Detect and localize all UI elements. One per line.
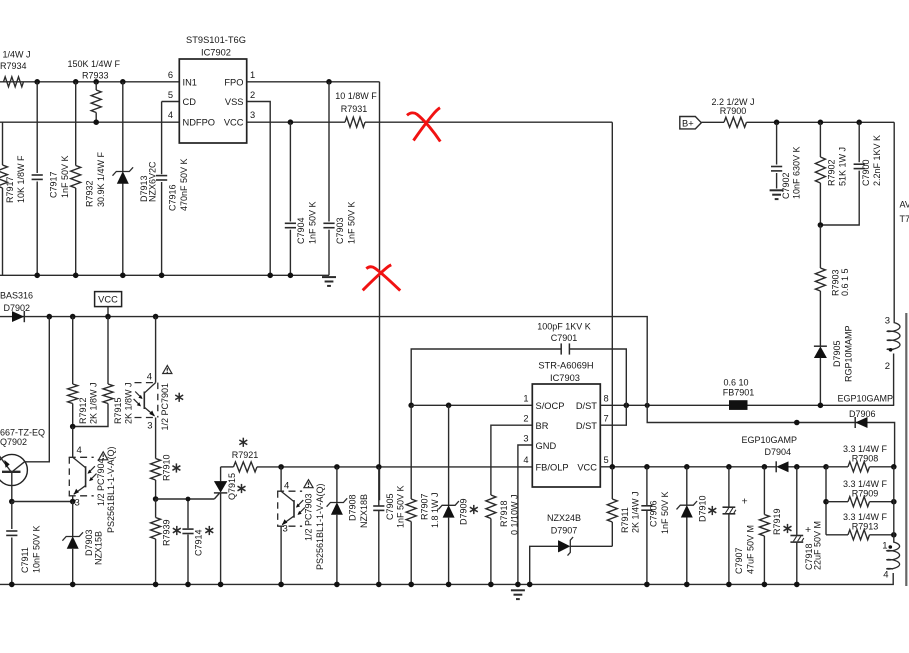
svg-text:5: 5 (168, 90, 173, 100)
svg-text:STR-A6069H: STR-A6069H (538, 361, 593, 371)
node pin6-R7932 (73, 79, 79, 85)
svg-text:D7903: D7903 (84, 529, 94, 556)
capacitor C7903 (328, 82, 330, 222)
svg-text:R7910: R7910 (162, 454, 172, 481)
node VCC-C7906 (644, 464, 650, 470)
svg-text:3: 3 (885, 316, 890, 327)
node B+ C7902 (774, 120, 780, 126)
asterisk Q7915 (241, 484, 243, 493)
wire S/OCP pin1 left (411, 404, 532, 406)
diode D7902 (12, 312, 23, 322)
svg-text:22uF 50V M: 22uF 50V M (813, 521, 823, 570)
node R7910 R7939 junction (153, 496, 159, 502)
svg-text:0.6 1 5: 0.6 1 5 (840, 268, 850, 296)
bottom rail dots (9, 582, 15, 588)
svg-text:D7902: D7902 (4, 303, 31, 313)
red X mark on FPO drop (363, 265, 401, 291)
zener diode D7910 (686, 467, 688, 505)
svg-text:47uF 50V M: 47uF 50V M (746, 525, 756, 574)
svg-text:FPO: FPO (224, 77, 243, 87)
electrolytic C7918 (796, 467, 798, 536)
svg-text:R7915: R7915 (113, 397, 123, 424)
svg-text:EGP10GAMP: EGP10GAMP (741, 435, 797, 445)
capacitor C7914 (187, 499, 189, 528)
svg-text:C7902: C7902 (781, 172, 791, 199)
resistor R7934 (4, 77, 24, 87)
svg-text:C7903: C7903 (335, 217, 345, 244)
svg-text:2: 2 (885, 361, 890, 372)
node drain-C7901 (624, 403, 630, 409)
svg-text:1: 1 (250, 70, 255, 80)
svg-text:R7932: R7932 (85, 180, 95, 207)
svg-text:R7934: R7934 (0, 61, 27, 71)
svg-text:3: 3 (75, 498, 80, 509)
node VCC-D7910 (684, 464, 690, 470)
red X mark on VCC wire (407, 108, 440, 142)
asterisk R7910 (175, 463, 177, 472)
svg-text:R7918: R7918 (499, 500, 509, 527)
wire VCC pin3 net (247, 121, 345, 123)
ground symbol main (511, 589, 525, 591)
IC U7903 box (532, 384, 600, 487)
svg-text:Q7902: Q7902 (0, 437, 27, 447)
node VCC-C7904 (288, 119, 294, 125)
warning triangle PC7901 (163, 366, 172, 374)
svg-text:D7908: D7908 (348, 494, 358, 521)
svg-text:CD: CD (183, 97, 197, 107)
svg-text:R7900: R7900 (720, 106, 747, 116)
wire VCC rail (0, 317, 895, 467)
svg-text:10nF 630V K: 10nF 630V K (792, 146, 802, 199)
node S/OCP C7901 (408, 403, 414, 409)
node pin6-R7933 (93, 79, 99, 85)
node FB-C7905 (376, 464, 382, 470)
svg-text:T7: T7 (900, 214, 909, 224)
capacitor C7906 (646, 467, 648, 505)
wire drain net pin8 (600, 404, 729, 406)
svg-text:1: 1 (882, 541, 887, 552)
svg-text:VCC: VCC (577, 463, 597, 473)
svg-text:R7913: R7913 (852, 522, 879, 532)
node VCC-R7908 (823, 464, 829, 470)
asterisk R7921 (242, 438, 244, 447)
svg-text:3: 3 (147, 421, 152, 432)
asterisk R7939 (176, 526, 178, 535)
diode D7904 (775, 461, 777, 472)
svg-text:R7933: R7933 (82, 71, 109, 81)
svg-text:NZX24B: NZX24B (547, 513, 581, 523)
svg-text:3.3 1/4W F: 3.3 1/4W F (843, 479, 888, 489)
svg-text:C7907: C7907 (734, 547, 744, 574)
svg-text:2K 1/8W J: 2K 1/8W J (124, 382, 134, 424)
svg-text:30.9K 1/4W F: 30.9K 1/4W F (96, 151, 106, 207)
VCC label box (95, 292, 122, 307)
svg-text:R7917: R7917 (5, 176, 15, 203)
svg-text:PS2561BL1-1-V-A(Q): PS2561BL1-1-V-A(Q) (106, 446, 116, 533)
svg-text:C7906: C7906 (649, 500, 659, 527)
node R7908 right (891, 464, 897, 470)
svg-text:R7902: R7902 (827, 159, 837, 186)
node FB-PC7903 (278, 464, 284, 470)
resistor R7933 (95, 82, 97, 90)
right bus to winding1 (893, 467, 895, 542)
svg-text:+: + (742, 496, 748, 508)
node pin6-C7917 (34, 79, 40, 85)
warning triangle PC7903 (304, 480, 313, 488)
resistor R7939 (155, 499, 157, 518)
svg-text:R7911: R7911 (620, 507, 630, 533)
svg-text:3: 3 (523, 434, 528, 444)
capacitor C7904 (289, 122, 291, 221)
svg-text:0.6 10: 0.6 10 (723, 378, 748, 388)
node R7909 left (823, 499, 829, 505)
transformer winding 3-2 (887, 323, 900, 350)
node SOCP-D7909 (446, 403, 452, 409)
svg-text:C7901: C7901 (551, 333, 578, 343)
node VCC-box (105, 314, 111, 320)
IC U7902 box (179, 59, 246, 143)
svg-text:1/2 PC7901: 1/2 PC7901 (160, 383, 170, 431)
thyristor Q7915 (220, 467, 222, 482)
node PC7904 pin3 (70, 499, 76, 505)
wire VCC pin5 right (600, 466, 776, 468)
asterisk D7910 (711, 506, 713, 515)
svg-text:2K 1/8W J: 2K 1/8W J (89, 382, 99, 424)
node VCC-Q7902col (47, 314, 53, 320)
asterisk PC7901 (178, 393, 180, 402)
capacitor C7911 (11, 502, 13, 530)
svg-text:C7905: C7905 (385, 493, 395, 520)
svg-text:NZX15B: NZX15B (94, 531, 104, 565)
svg-text:D7910: D7910 (698, 495, 708, 522)
wire GND pin3 (518, 445, 532, 584)
node R7912 R7915 join (70, 424, 76, 430)
node drain-x647 (645, 403, 650, 408)
wire FPO pin1 (247, 81, 380, 83)
svg-text:10nF 50V K: 10nF 50V K (32, 525, 42, 573)
svg-text:VCC: VCC (98, 295, 118, 305)
node Q7902 base junction (9, 499, 15, 505)
resistor R7915 (107, 317, 109, 384)
wire B+ net (747, 121, 895, 123)
wire FPO vertical drop (379, 82, 381, 501)
zener diode D7907 (571, 545, 613, 547)
svg-text:RGP10MAMP: RGP10MAMP (844, 325, 854, 382)
node VCC-C7907 (726, 464, 732, 470)
wire gate net (156, 498, 215, 500)
node FPO-C7903 (326, 79, 332, 85)
svg-text:NDFPO: NDFPO (183, 118, 216, 128)
resistor R7917 (2, 122, 4, 165)
resistor R7909 (826, 501, 848, 503)
rail dots (34, 273, 40, 279)
capacitor C7917 (36, 82, 38, 173)
svg-text:FB7901: FB7901 (723, 388, 755, 398)
svg-text:4: 4 (883, 570, 888, 581)
svg-text:1nF 50V K: 1nF 50V K (308, 201, 318, 244)
svg-text:C7916: C7916 (168, 184, 178, 211)
transformer core bar (905, 313, 907, 586)
ground symbol under C7903 (322, 276, 336, 278)
node B+ R7902 (818, 120, 824, 126)
capacitor C7902 (776, 122, 778, 164)
node R7933-pin4 (93, 119, 99, 125)
svg-text:1nF 50V K: 1nF 50V K (60, 155, 70, 198)
svg-text:1/4W J: 1/4W J (3, 50, 31, 60)
svg-text:+: + (805, 524, 811, 536)
svg-text:D7906: D7906 (849, 409, 876, 419)
zener diode D7913 (122, 82, 124, 172)
svg-text:2.2nF 1KV K: 2.2nF 1KV K (872, 135, 882, 186)
svg-text:R7919: R7919 (772, 508, 782, 535)
svg-text:PS2561BL1-1-V-A(Q): PS2561BL1-1-V-A(Q) (315, 483, 325, 570)
svg-text:1nF 50V K: 1nF 50V K (347, 201, 357, 244)
svg-text:5: 5 (604, 455, 609, 465)
svg-text:D/ST: D/ST (576, 401, 597, 411)
svg-text:1.8 1W J: 1.8 1W J (430, 492, 440, 528)
node VCC-R7919 (762, 464, 768, 470)
resistor R7931 (345, 117, 365, 127)
zener diode D7903 (72, 502, 74, 537)
node VCC-C7918 (794, 464, 800, 470)
resistor R7912 (72, 317, 74, 384)
node VCC-R7911 (610, 464, 616, 470)
svg-text:IC7902: IC7902 (201, 48, 231, 58)
svg-text:R7907: R7907 (420, 493, 430, 520)
optocoupler PC7903 (280, 467, 282, 491)
resistor R7911 (611, 467, 613, 499)
svg-text:VSS: VSS (225, 97, 244, 107)
svg-text:NZX18B: NZX18B (359, 494, 369, 528)
wire FB/OLP left segment (221, 466, 234, 468)
svg-text:R7903: R7903 (831, 269, 841, 296)
B+ terminal tag (680, 117, 702, 129)
ferrite bead FB7901 (729, 400, 748, 410)
asterisk C7914 (208, 526, 210, 535)
resistor R7921 (234, 462, 258, 472)
resistor R7919 (763, 467, 765, 515)
ground rail upper-left (0, 274, 329, 276)
node D7906 C7918 branch (794, 420, 800, 426)
optocoupler PC7904 (72, 427, 74, 458)
wire VSS pin2 (247, 102, 271, 276)
transistor Q7902 (0, 454, 27, 485)
svg-text:R7939: R7939 (162, 519, 172, 546)
resistor R7903 (819, 225, 821, 268)
zener diode D7909 (448, 405, 450, 505)
asterisk R7919 (787, 524, 789, 533)
resistor R7910 (155, 458, 157, 460)
diode D7906 (854, 417, 856, 428)
svg-text:2: 2 (250, 90, 255, 100)
resistor R7908 (848, 462, 869, 472)
svg-text:4: 4 (523, 455, 528, 465)
node C7914 top (186, 497, 191, 502)
resistor R7907 (410, 405, 412, 499)
svg-text:8: 8 (604, 394, 609, 404)
wire CD pin5 (162, 101, 180, 103)
svg-text:150K 1/4W F: 150K 1/4W F (68, 59, 121, 69)
svg-text:1nF 50V K: 1nF 50V K (660, 491, 670, 534)
warning triangle PC7904 (99, 452, 108, 460)
svg-text:BAS316: BAS316 (0, 291, 33, 301)
svg-text:R7909: R7909 (852, 489, 879, 499)
svg-text:3.3 1/4W F: 3.3 1/4W F (843, 512, 888, 522)
node VCC-PC7901 (153, 314, 159, 320)
svg-text:1: 1 (523, 394, 528, 404)
svg-text:100pF 1KV K: 100pF 1KV K (537, 322, 591, 332)
svg-text:R7908: R7908 (852, 454, 879, 464)
svg-text:B+: B+ (682, 118, 694, 128)
wire NDFPO pin4 net (0, 121, 179, 123)
svg-text:R7912: R7912 (78, 397, 88, 424)
svg-text:D7907: D7907 (551, 526, 578, 536)
svg-text:IN1: IN1 (183, 77, 197, 87)
left parallel bus (825, 467, 827, 535)
electrolytic C7907 (728, 467, 730, 507)
resistor R7902 (819, 122, 821, 157)
svg-text:C7914: C7914 (194, 529, 204, 556)
svg-text:1/2 PC7904: 1/2 PC7904 (96, 458, 106, 506)
optocoupler PC7901 (155, 317, 157, 383)
svg-text:4: 4 (77, 445, 82, 456)
capacitor C7901 (411, 349, 561, 405)
svg-text:S/OCP: S/OCP (536, 401, 565, 411)
svg-text:FB/OLP: FB/OLP (536, 463, 569, 473)
resistor R7913 (826, 534, 848, 536)
wire B+ down to winding3 (893, 122, 895, 322)
node FB-D7908 (334, 464, 340, 470)
svg-text:R7931: R7931 (341, 104, 368, 114)
node VCC-R7912 (70, 314, 76, 320)
svg-text:51K 1W J: 51K 1W J (838, 147, 848, 186)
zener diode D7908 (336, 467, 338, 503)
svg-text:C7911: C7911 (20, 547, 30, 573)
wire base node to PC7904 (12, 501, 73, 503)
vertical from IC7902 VCC (611, 122, 613, 467)
svg-text:10 1/8W F: 10 1/8W F (335, 91, 377, 101)
svg-text:EGP10GAMP: EGP10GAMP (837, 394, 893, 404)
svg-text:ST9S101-T6G: ST9S101-T6G (186, 35, 246, 45)
svg-text:2K 1/4W J: 2K 1/4W J (631, 491, 641, 533)
svg-text:1nF 50V K: 1nF 50V K (396, 485, 406, 528)
node R7913 right (891, 532, 897, 538)
svg-text:R7921: R7921 (232, 450, 259, 460)
svg-text:AV: AV (900, 200, 909, 210)
node R7909 right (891, 499, 897, 505)
wire pin6 IN1 net (0, 81, 179, 83)
svg-text:NZX6V2C: NZX6V2C (148, 161, 158, 202)
resistor R7900 (724, 117, 747, 127)
svg-text:D7905: D7905 (832, 340, 842, 367)
svg-text:7: 7 (604, 414, 609, 424)
svg-text:1/2 PC7903: 1/2 PC7903 (304, 493, 314, 541)
svg-text:470nF 50V K: 470nF 50V K (179, 158, 189, 211)
resistor R7918 (486, 495, 496, 519)
svg-text:Q7915: Q7915 (227, 473, 237, 500)
svg-text:IC7903: IC7903 (550, 373, 580, 383)
wire Q7902 collector to VCC (25, 317, 50, 462)
svg-text:D/ST: D/ST (576, 421, 597, 431)
wire FB/OLP into pin4 (517, 466, 519, 468)
transformer winding 1-4 (887, 542, 900, 569)
wire BR pin2 (491, 425, 532, 495)
diode D7905 (814, 345, 827, 347)
svg-text:C7917: C7917 (49, 171, 59, 198)
wire B+ to R7900 (701, 121, 724, 123)
resistor R7932 (75, 82, 77, 166)
capacitor C7916 (161, 102, 163, 175)
svg-text:4: 4 (147, 372, 152, 383)
asterisk D7909 (473, 505, 475, 514)
capacitor C7905 (378, 467, 380, 506)
capacitor C7900 (858, 122, 860, 162)
node B+ C7900 (856, 120, 862, 126)
svg-text:BR: BR (536, 421, 549, 431)
svg-text:3: 3 (283, 524, 288, 535)
svg-text:6: 6 (168, 70, 173, 80)
node drain-D7905 (818, 403, 824, 409)
svg-text:VCC: VCC (224, 118, 244, 128)
ground symbol under C7902 (770, 189, 784, 191)
svg-text:C7900: C7900 (861, 159, 871, 186)
svg-text:4: 4 (168, 110, 173, 120)
svg-text:667-TZ-EQ: 667-TZ-EQ (0, 427, 45, 437)
node R7902 C7900 join (818, 222, 824, 228)
svg-text:10K 1/8W F: 10K 1/8W F (16, 155, 26, 203)
svg-text:4: 4 (284, 480, 289, 491)
svg-text:3.3 1/4W F: 3.3 1/4W F (843, 444, 888, 454)
node pin6-D7913 (120, 79, 126, 85)
svg-text:2: 2 (523, 414, 528, 424)
svg-text:GND: GND (536, 441, 557, 451)
svg-text:D7909: D7909 (459, 498, 469, 525)
svg-text:3: 3 (250, 110, 255, 120)
svg-text:C7904: C7904 (296, 217, 306, 244)
svg-text:D7904: D7904 (764, 447, 791, 457)
